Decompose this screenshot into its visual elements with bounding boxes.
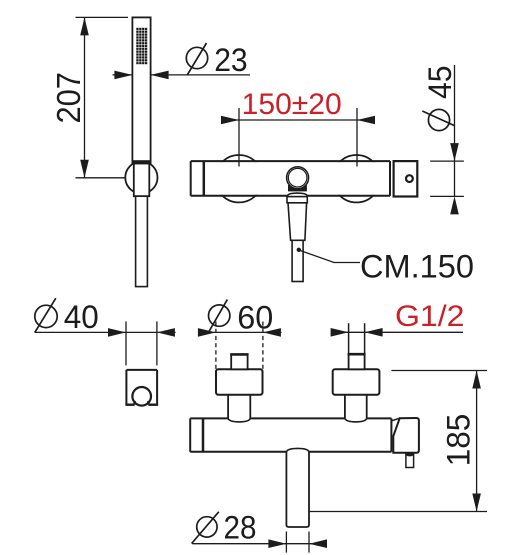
dimension dia 40: [35, 321, 176, 365]
dimension 150+-20: [221, 108, 375, 167]
dia symbol 23: [186, 43, 207, 75]
bracket bottom edge: [125, 401, 158, 405]
knob neck (dark): [288, 185, 307, 191]
dia symbol 28: [192, 512, 219, 544]
aerator: [406, 453, 414, 468]
svg-text:G1/2: G1/2: [395, 300, 465, 333]
temperature handle end: [394, 161, 418, 196]
hose dot: [297, 248, 301, 252]
handle screw: [406, 175, 413, 182]
holder sleeve: [134, 163, 150, 196]
spout collar dome: [287, 193, 307, 197]
left rosette flange: [216, 369, 263, 394]
left leg dome: [228, 418, 250, 422]
svg-text:185: 185: [440, 414, 477, 467]
lever handle: [393, 418, 419, 453]
holder ball: [125, 161, 157, 193]
spout cone: [288, 203, 307, 241]
body fill: [191, 162, 390, 195]
CM.150 leader: [301, 251, 361, 263]
diverter knob inner: [288, 168, 307, 187]
body outline: [191, 161, 390, 196]
hand shower handle: [132, 17, 150, 163]
right rosette flange: [333, 369, 380, 394]
svg-text:60: 60: [237, 298, 273, 335]
dimension 185: [309, 371, 487, 512]
dimension 207: [76, 17, 129, 177]
svg-text:45: 45: [421, 65, 458, 99]
dia symbol 45 (rotated): [422, 109, 454, 130]
spout dome (bottom view): [286, 448, 309, 451]
shower hose (view 2): [292, 240, 303, 281]
left nut: [231, 354, 247, 369]
bracket hole circle: [132, 387, 151, 406]
dia symbol 60: [208, 300, 230, 334]
lever handle connector: [391, 418, 399, 421]
right nut: [349, 354, 365, 369]
handle/holder junction band: [132, 160, 150, 163]
spout collar: [287, 197, 307, 203]
shower hose (view 1): [136, 196, 148, 286]
dia symbol 40: [35, 298, 57, 332]
body fill (bottom view): [190, 419, 391, 450]
right wall union circle: [333, 155, 380, 202]
left inlet leg: [228, 395, 250, 419]
svg-text:28: 28: [224, 509, 257, 546]
svg-text:40: 40: [64, 298, 99, 335]
dimension dia 60: [199, 322, 282, 370]
dimension dia 23: [113, 74, 251, 76]
spout tube (bottom view): [286, 452, 309, 527]
body left cap line (bottom view): [202, 418, 205, 451]
dimension G1/2: [349, 323, 365, 354]
svg-text:CM.150: CM.150: [360, 247, 474, 284]
svg-text:150±20: 150±20: [242, 88, 342, 121]
body outline (bottom view): [190, 418, 391, 451]
right inlet leg: [345, 395, 367, 419]
right leg dome: [345, 418, 367, 422]
svg-text:207: 207: [50, 72, 87, 124]
dimension dia 45: [430, 65, 464, 196]
diverter knob outer: [287, 167, 309, 189]
spray face dots: [136, 28, 148, 65]
bracket square: [126, 370, 157, 405]
body left cap line: [203, 161, 206, 196]
left wall union circle: [215, 155, 262, 202]
svg-text:23: 23: [214, 41, 248, 78]
dimension dia 28: [192, 532, 325, 553]
